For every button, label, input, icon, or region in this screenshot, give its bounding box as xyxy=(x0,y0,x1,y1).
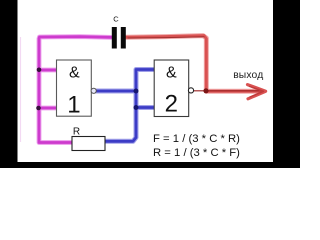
svg-text:C: C xyxy=(113,15,119,24)
svg-text:выход: выход xyxy=(233,70,263,81)
svg-text:2: 2 xyxy=(165,91,178,118)
svg-text:1: 1 xyxy=(67,92,80,119)
svg-text:R: R xyxy=(73,127,80,138)
svg-text:R = 1 / (3 * C * F): R = 1 / (3 * C * F) xyxy=(153,147,240,159)
svg-text:F = 1 / (3 * C * R): F = 1 / (3 * C * R) xyxy=(153,133,240,145)
svg-text:&: & xyxy=(69,65,80,82)
svg-text:&: & xyxy=(166,65,177,82)
